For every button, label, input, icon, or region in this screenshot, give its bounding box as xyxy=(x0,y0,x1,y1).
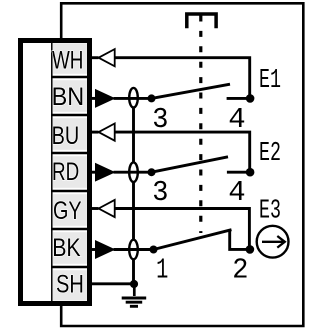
terminal SH xyxy=(53,270,87,300)
svg-text:BU: BU xyxy=(52,123,80,150)
switch E1 blade xyxy=(152,84,231,98)
cable grommet oval BK xyxy=(129,240,138,260)
switch E2 fixed contact xyxy=(227,171,250,174)
svg-text:2: 2 xyxy=(232,254,248,287)
svg-text:3: 3 xyxy=(152,103,168,136)
switch E3 blade (closed) xyxy=(154,230,232,250)
node E3 terminal 2 xyxy=(246,245,255,254)
arrow GY (input, open triangle) xyxy=(92,207,99,210)
terminal WH xyxy=(52,43,87,74)
terminal BK xyxy=(52,232,87,264)
arrow WH (input, open triangle) xyxy=(92,56,99,59)
svg-text:SH: SH xyxy=(56,271,84,298)
wire RD to E2 terminal 3 xyxy=(114,171,152,174)
svg-text:E1: E1 xyxy=(259,66,281,96)
actuator bracket xyxy=(187,14,216,28)
wire BU to E2 terminal 4 xyxy=(115,132,250,172)
svg-text:WH: WH xyxy=(52,47,83,74)
arrow RD (output, filled triangle) xyxy=(92,171,96,174)
arrow BU (input, open triangle) xyxy=(92,131,99,134)
wire BK to E3 terminal 1 xyxy=(114,248,154,251)
svg-text:RD: RD xyxy=(52,159,79,186)
svg-text:BK: BK xyxy=(52,235,81,262)
cable grommet oval RD xyxy=(129,162,138,182)
node E2 terminal 3 xyxy=(148,168,156,176)
svg-text:E3: E3 xyxy=(259,197,281,227)
wire BN to E1 terminal 3 xyxy=(114,97,152,100)
svg-text:GY: GY xyxy=(53,198,82,225)
wire GY to E3 terminal 2 xyxy=(115,209,250,250)
terminal BU xyxy=(52,118,87,150)
connector block xyxy=(21,41,90,304)
terminal GY xyxy=(53,194,87,226)
magnet actuator symbol xyxy=(257,226,289,258)
wire housing outline frame xyxy=(61,3,303,326)
terminal strip left border xyxy=(51,43,53,301)
arrow BN (output, filled triangle) xyxy=(92,97,96,100)
node E1 terminal 4 xyxy=(246,94,255,103)
wire SH xyxy=(92,282,134,285)
switch E2 blade xyxy=(152,157,229,172)
actuator dashed link xyxy=(199,16,202,234)
cable grommet oval BN xyxy=(129,88,138,108)
svg-text:1: 1 xyxy=(156,254,168,287)
svg-text:4: 4 xyxy=(228,176,245,209)
svg-text:3: 3 xyxy=(152,176,168,209)
terminal strip separators xyxy=(51,77,87,267)
node E2 terminal 4 xyxy=(246,168,255,177)
arrow BK (output, filled triangle) xyxy=(92,248,96,251)
node E1 terminal 3 xyxy=(148,94,156,102)
ground xyxy=(122,284,147,306)
shield drain line xyxy=(132,108,135,284)
switch E1 fixed contact xyxy=(227,97,250,100)
terminal BN xyxy=(52,80,87,112)
node E3 terminal 1 xyxy=(150,246,158,254)
junction SH to ground xyxy=(130,280,138,288)
svg-text:E2: E2 xyxy=(259,139,281,169)
switch E3 contact link xyxy=(230,231,250,250)
svg-text:4: 4 xyxy=(228,103,245,136)
svg-text:BN: BN xyxy=(52,84,85,111)
terminal RD xyxy=(52,156,87,188)
wire WH to E1 terminal 4 xyxy=(115,58,250,99)
